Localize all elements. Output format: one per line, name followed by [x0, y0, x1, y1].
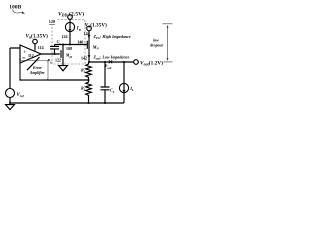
output line	[89, 61, 134, 63]
svg-text:140: 140	[77, 40, 83, 45]
source wire with current arrow	[88, 52, 90, 62]
node label 124	[62, 34, 68, 39]
svg-text:108: 108	[66, 46, 72, 51]
svg-text:120: 120	[49, 19, 55, 24]
svg-text:ZPG: High Impedance: ZPG: High Impedance	[93, 34, 131, 40]
op-amp U1 error amplifier	[20, 45, 41, 63]
leader arrow for 100B	[13, 10, 26, 14]
wire op-amp output to Mfd gate	[41, 53, 60, 55]
svg-text:124: 124	[62, 34, 68, 39]
node Pout marker	[109, 60, 112, 63]
resistor R2	[86, 80, 92, 103]
supply terminal Va op-amp	[33, 39, 38, 44]
supply terminal Vdd	[68, 15, 73, 20]
svg-text:Zout: Low Impedance: Zout: Low Impedance	[93, 55, 130, 61]
gate line node 140	[55, 44, 88, 46]
svg-text:+: +	[23, 50, 26, 55]
svg-text:IL: IL	[129, 86, 134, 92]
svg-text:Va(1.35V): Va(1.35V)	[26, 32, 49, 39]
dashed box 120	[52, 20, 85, 65]
feedback wire to - input	[20, 58, 89, 80]
resistor R1	[86, 62, 92, 80]
terminal Vout	[134, 60, 139, 65]
node Cc bottom junction	[53, 53, 55, 55]
svg-text:R2: R2	[81, 86, 86, 92]
error amplifier callout box	[20, 61, 48, 80]
supply terminal Va for MN	[87, 26, 92, 31]
capacitor CL	[101, 62, 110, 103]
wire Vdd to IB	[69, 19, 71, 22]
callout leader	[27, 57, 40, 70]
svg-text:100B: 100B	[9, 4, 21, 10]
wire Vref to rail	[9, 98, 11, 104]
svg-text:114: 114	[38, 45, 44, 50]
svg-text:dropout: dropout	[150, 44, 163, 48]
svg-text:IB: IB	[76, 27, 82, 32]
svg-text:Vout(1.2V): Vout(1.2V)	[140, 59, 163, 66]
node feedback tap	[87, 79, 89, 81]
wire + input from Vref	[10, 48, 20, 89]
svg-text:CL: CL	[110, 88, 115, 94]
svg-text:112: 112	[28, 53, 34, 58]
svg-text:Vref: Vref	[17, 93, 25, 98]
annotation ZPG high impedance	[93, 34, 131, 40]
ground under Mfd	[59, 66, 68, 71]
ground	[6, 105, 15, 110]
low dropout dimension arrow	[163, 24, 173, 62]
svg-text:Amplifier: Amplifier	[29, 71, 45, 75]
svg-text:142: 142	[81, 56, 87, 61]
voltage source Vref	[6, 89, 15, 98]
svg-text:VDD (2.5V): VDD (2.5V)	[58, 10, 84, 17]
svg-text:low: low	[153, 39, 159, 43]
node label PG 122	[47, 58, 61, 65]
svg-text:Pout: Pout	[105, 64, 112, 70]
transistor MN	[84, 44, 87, 46]
current source IL	[123, 62, 125, 83]
current source IB	[65, 22, 74, 31]
svg-text:R1: R1	[81, 68, 86, 74]
svg-text:122: 122	[55, 58, 61, 63]
figure label 100B	[9, 4, 21, 10]
svg-text:MN: MN	[92, 44, 100, 50]
drain wire with current arrow	[88, 31, 90, 40]
transistor Mfd	[58, 53, 61, 55]
capacitor Cc	[50, 45, 59, 55]
ground rail wire	[10, 102, 124, 104]
wire IB to gate line	[69, 32, 71, 45]
svg-text:Mfd: Mfd	[65, 53, 73, 59]
svg-text:Va(1.35V): Va(1.35V)	[85, 21, 107, 28]
annotation Zout low impedance	[93, 55, 130, 61]
svg-text:Error: Error	[32, 66, 42, 70]
node at ground rail	[9, 102, 11, 104]
